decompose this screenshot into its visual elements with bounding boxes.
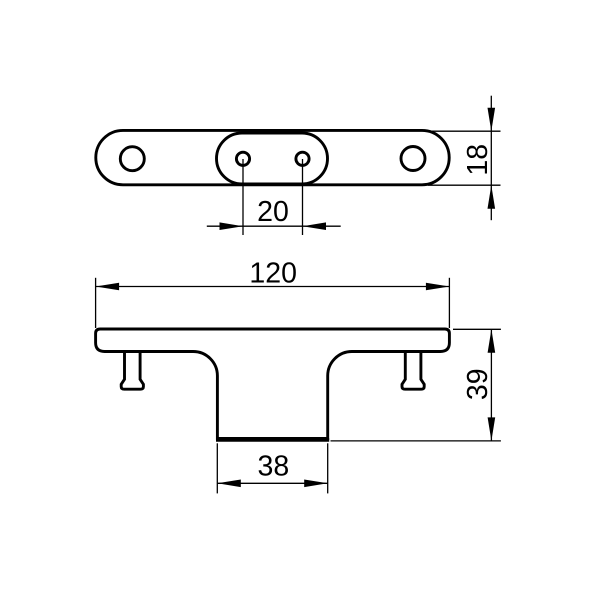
right mounting hole <box>401 147 425 171</box>
svg-text:20: 20 <box>257 196 289 228</box>
dim 18 bottom arrow <box>488 185 496 209</box>
dim 18 bottom extension line <box>428 184 501 186</box>
dim 120 right arrow <box>426 283 450 291</box>
dim 20 left arrow <box>220 222 244 230</box>
left mounting hole <box>120 147 144 171</box>
front view stem bottom line <box>216 438 329 441</box>
dim 20 right arrow <box>303 222 327 230</box>
dim 18 dimension line <box>490 96 492 221</box>
left small hole <box>236 152 249 165</box>
dim 38 right extension line <box>327 443 329 493</box>
dim 38 right arrow <box>304 480 328 488</box>
dim 39 top arrow <box>488 329 496 353</box>
dim 39 bottom arrow <box>488 417 496 441</box>
left peg <box>121 352 143 389</box>
dim 38 dimension line <box>217 482 327 484</box>
dim 120 right extension line <box>448 278 450 328</box>
dim 38 left extension line <box>216 443 218 493</box>
dim 20 dimension line <box>207 225 341 227</box>
dim 39 top extension line <box>453 328 501 330</box>
dim 120 dimension line <box>96 286 450 288</box>
dim 20 left extension line <box>242 159 244 235</box>
top view plate outline <box>96 130 449 184</box>
front view handle outline <box>96 329 450 438</box>
svg-text:38: 38 <box>258 451 290 483</box>
top view center boss outline <box>217 133 328 184</box>
dim 18 top extension line <box>428 130 501 132</box>
right small hole <box>296 152 309 165</box>
svg-text:120: 120 <box>249 257 297 289</box>
dim 38 left arrow <box>217 480 241 488</box>
svg-text:18: 18 <box>462 144 494 176</box>
right peg <box>402 352 424 389</box>
svg-text:39: 39 <box>462 368 494 400</box>
dim 20 right extension line <box>302 159 304 235</box>
dim 18 top arrow <box>488 108 496 132</box>
dim 120 left extension line <box>95 278 97 328</box>
dim 39 bottom extension line <box>331 440 501 442</box>
dim 120 left arrow <box>96 283 120 291</box>
dim 39 dimension line <box>490 329 492 441</box>
